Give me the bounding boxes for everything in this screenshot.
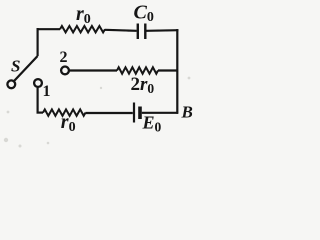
contact node 1 (circle) [34, 79, 42, 87]
wire: middle rail from 2r0 to right rail [158, 69, 178, 71]
wire: bottom rail right segment [142, 112, 178, 114]
wire: stem from node 1 down to bottom rail [36, 87, 38, 113]
resistor 2r0 (zigzag) [117, 67, 158, 73]
wire: top rail between r0 and C0 [105, 30, 137, 31]
svg-text:B: B [181, 103, 193, 122]
capacitor C0 right plate [144, 24, 146, 40]
wire: right rail [176, 29, 178, 114]
resistor r0 bottom (zigzag) [43, 109, 86, 115]
scan speckle marks (decorative) [4, 77, 191, 148]
switch S blade (diagonal) [14, 56, 37, 81]
svg-text:S: S [11, 57, 20, 76]
wire: bottom rail left corner [37, 111, 44, 113]
wire: top rail left segment [37, 28, 61, 30]
capacitor C0 left plate [137, 24, 139, 40]
wire: top rail right segment [147, 29, 179, 32]
resistor R top (r0 zigzag) [60, 26, 105, 32]
switch S pivot terminal (circle) [7, 80, 15, 88]
paper background [0, 0, 194, 154]
svg-text:1: 1 [43, 83, 51, 100]
wire: middle rail from node 2 to 2r0 [69, 69, 117, 71]
battery E0 long plate (+) [133, 103, 135, 123]
battery E0 short plate (-) [138, 107, 142, 120]
switch S: wire from top rail down [36, 28, 38, 56]
contact node 2 (circle) [61, 67, 69, 75]
svg-text:2: 2 [60, 49, 68, 66]
wire: bottom rail between r0 and battery [86, 112, 133, 114]
